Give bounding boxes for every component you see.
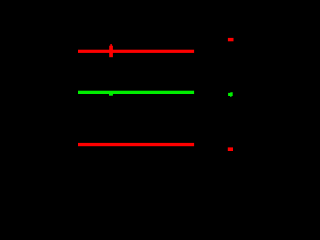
node right green blob B — [228, 92, 233, 97]
node right red blob C — [228, 147, 233, 151]
wire top red line — [78, 50, 194, 53]
wire bottom red line — [78, 143, 194, 146]
node right red blob A — [228, 38, 234, 41]
node marker plus on top red line — [109, 46, 113, 58]
node marker nub below green line — [109, 94, 113, 96]
wire middle green line — [78, 91, 194, 94]
